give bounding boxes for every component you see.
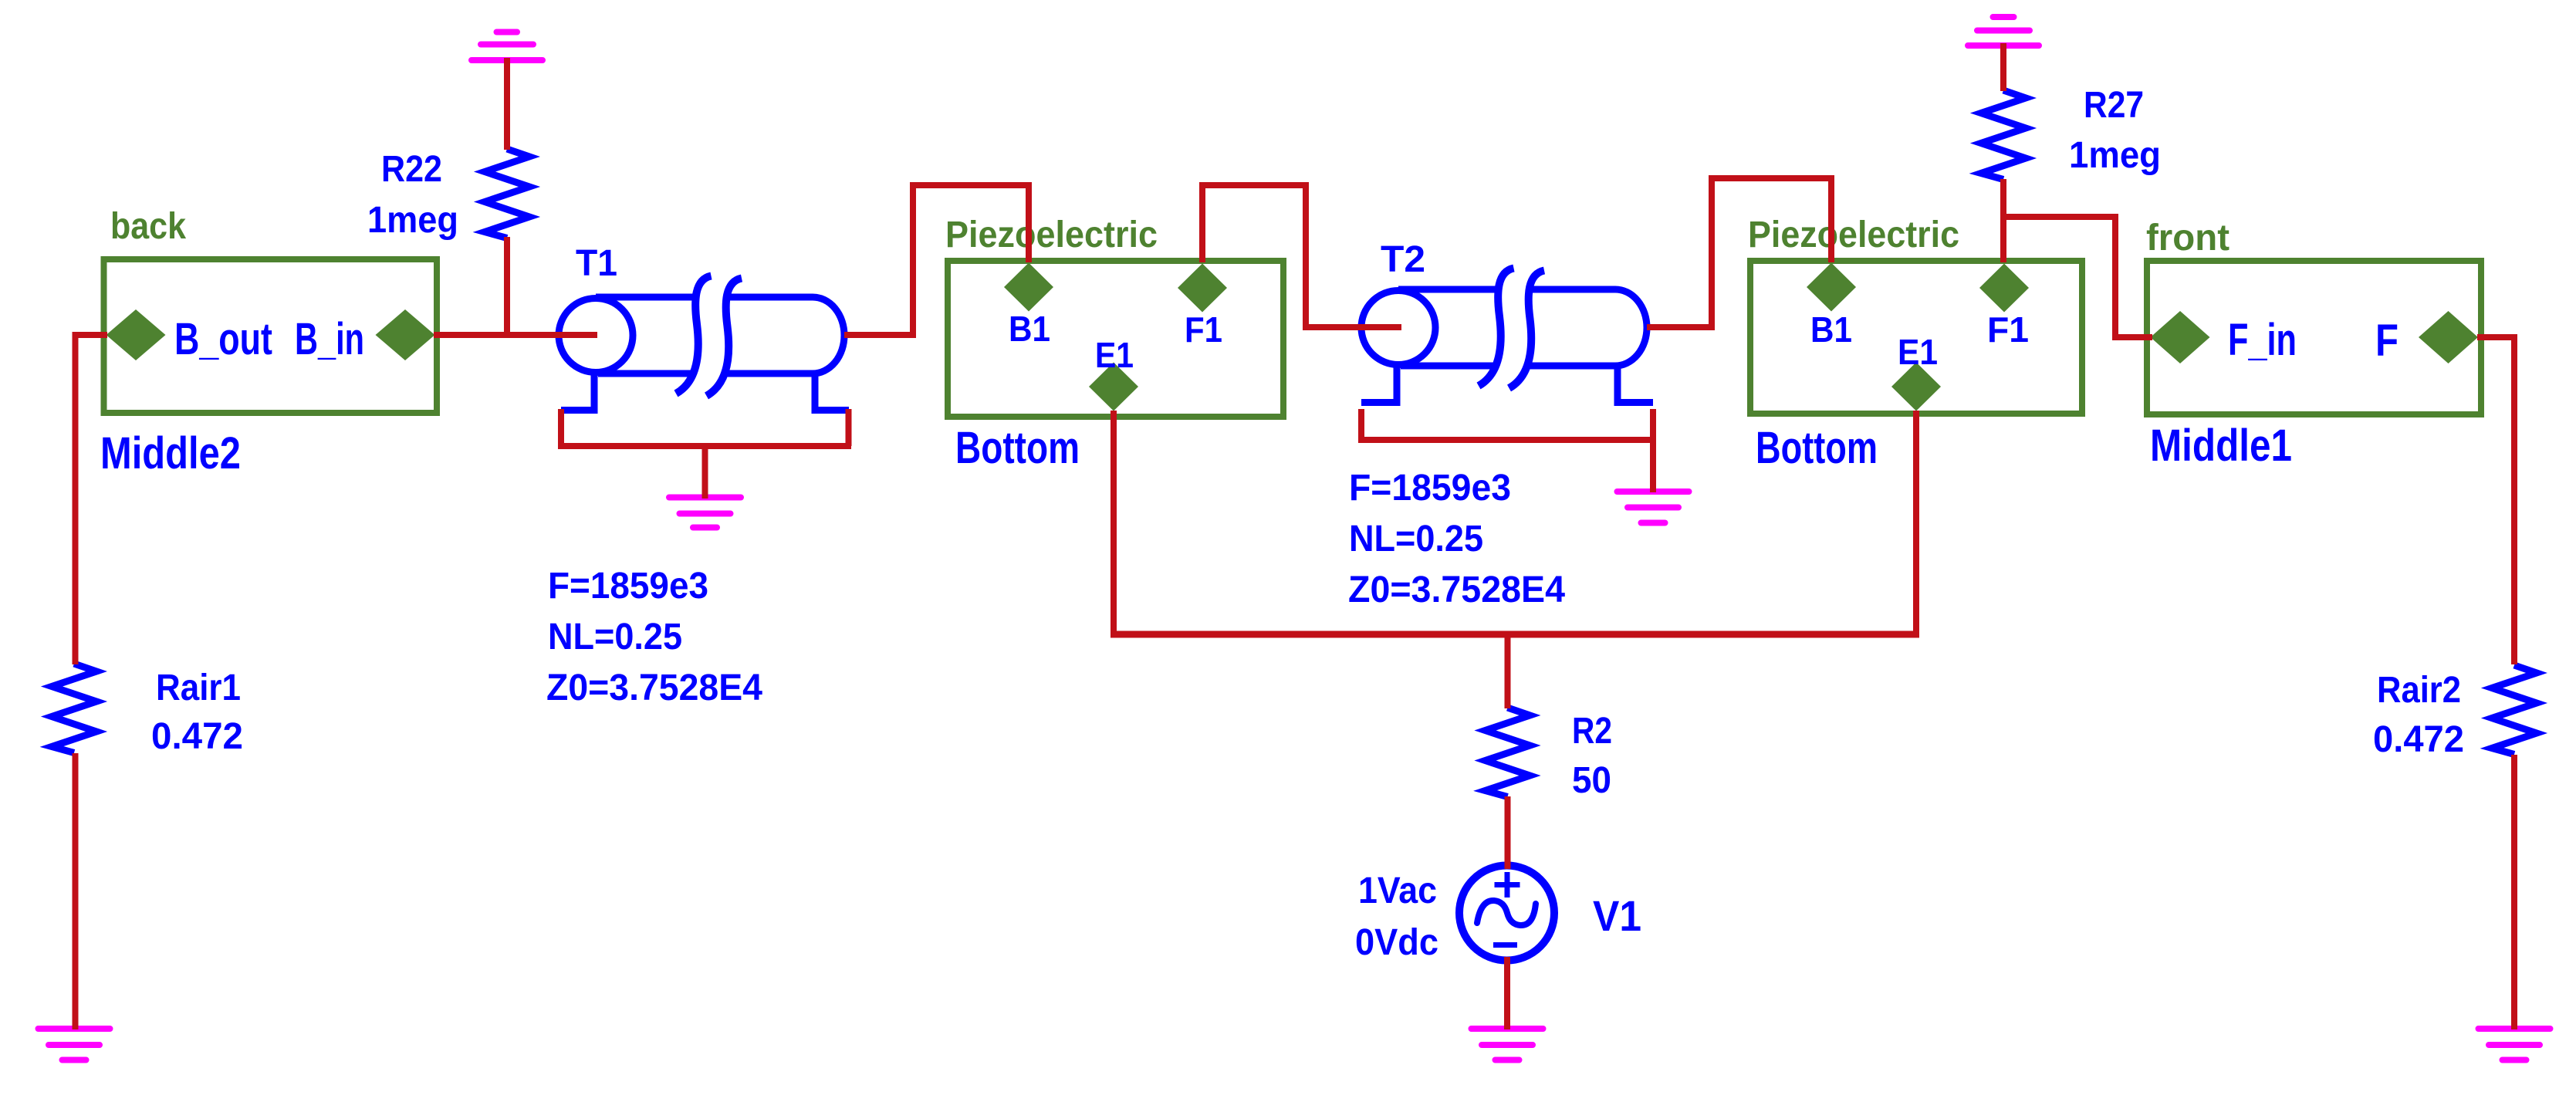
svg-text:Rair1: Rair1 <box>156 668 241 708</box>
svg-text:back: back <box>110 206 186 247</box>
ground under V1 <box>1472 1029 1543 1060</box>
resistor Rair1 zigzag <box>52 664 96 753</box>
svg-text:T2: T2 <box>1381 239 1425 280</box>
port diamond F1 of second Piezoelectric <box>1979 264 2029 313</box>
resistor Rair2 zigzag <box>2492 665 2537 755</box>
wire E1 of first Piezoelectric down to bottom rail <box>1111 411 1117 634</box>
ground above R27 <box>1968 17 2039 46</box>
transmission line T1 symbol <box>559 276 849 411</box>
wire node F1/R27 to port F_in of front block <box>2003 217 2152 337</box>
svg-text:R2: R2 <box>1572 711 1612 752</box>
svg-text:F1: F1 <box>1987 309 2029 350</box>
wire T2 output to port B1 of second Piezoelectric <box>1647 178 1831 327</box>
resistor R22 zigzag <box>485 149 529 238</box>
svg-text:F=1859e3: F=1859e3 <box>1349 468 1511 509</box>
wire V1 minus terminal to ground <box>1504 957 1510 1029</box>
svg-text:Rair2: Rair2 <box>2377 670 2461 711</box>
svg-text:E1: E1 <box>1095 335 1134 375</box>
wire R27 to port F1 of second Piezoelectric <box>2000 179 2006 262</box>
port diamond F_in <box>2151 311 2210 363</box>
ground above R22 <box>472 32 543 61</box>
ground under Rair1 <box>39 1029 110 1060</box>
wire T2 shield legs and bottom rail <box>1358 409 1653 440</box>
wire B_in to T1 center <box>434 332 597 338</box>
svg-text:1meg: 1meg <box>367 200 458 241</box>
ground under T1 <box>669 498 741 528</box>
port diamond E1 of second Piezoelectric <box>1891 363 1941 411</box>
ground under Rair2 <box>2479 1029 2551 1060</box>
resistor R27 zigzag <box>1981 90 2026 180</box>
svg-text:Middle2: Middle2 <box>100 428 241 478</box>
svg-text:NL=0.25: NL=0.25 <box>548 617 682 657</box>
svg-text:F_in: F_in <box>2228 315 2297 365</box>
svg-text:front: front <box>2146 218 2229 259</box>
svg-text:Bottom: Bottom <box>955 423 1080 473</box>
wire T1 shield legs and bottom rail <box>558 409 851 446</box>
svg-text:0Vdc: 0Vdc <box>1355 922 1438 963</box>
port diamond B1 of second Piezoelectric <box>1807 263 1856 312</box>
wire B_out to Rair1 <box>76 335 108 664</box>
svg-text:E1: E1 <box>1898 332 1938 372</box>
svg-text:R27: R27 <box>2084 85 2144 126</box>
svg-text:B1: B1 <box>1810 309 1852 350</box>
port diamond B1 of first Piezoelectric <box>1004 263 1053 312</box>
ground under T2 <box>1618 492 1689 523</box>
svg-text:NL=0.25: NL=0.25 <box>1349 519 1483 559</box>
wire E1 of second Piezoelectric down to bottom rail <box>1913 411 1919 634</box>
svg-text:T1: T1 <box>576 243 617 284</box>
hierarchical block front / Middle1 <box>2147 261 2481 414</box>
port diamond F <box>2419 311 2478 363</box>
resistor R2 zigzag <box>1486 708 1530 797</box>
svg-text:F=1859e3: F=1859e3 <box>548 566 708 607</box>
svg-text:Piezoelectric: Piezoelectric <box>1748 215 1959 255</box>
wire port F to Rair2 <box>2477 337 2514 664</box>
wire bottom rail between E1 ports <box>1111 631 1919 638</box>
svg-text:F: F <box>2375 316 2399 366</box>
wire ground to R22 <box>504 58 510 150</box>
svg-text:Z0=3.7528E4: Z0=3.7528E4 <box>546 668 762 708</box>
svg-text:50: 50 <box>1572 760 1611 801</box>
port diamond E1 of first Piezoelectric <box>1089 363 1138 411</box>
wire port F1 of first Piezoelectric to T2 center <box>1202 185 1401 327</box>
transmission line T2 symbol <box>1361 269 1653 403</box>
wire T1 rail to ground <box>702 446 708 499</box>
svg-text:B1: B1 <box>1009 309 1050 349</box>
svg-text:Z0=3.7528E4: Z0=3.7528E4 <box>1348 570 1565 610</box>
svg-text:Piezoelectric: Piezoelectric <box>945 215 1158 255</box>
svg-text:1Vac: 1Vac <box>1358 870 1437 911</box>
svg-text:1meg: 1meg <box>2069 135 2161 176</box>
svg-text:V1: V1 <box>1593 891 1641 940</box>
wire R22 to node at main wire <box>504 237 510 338</box>
hierarchical block Piezoelectric 1 / Bottom <box>948 261 1283 417</box>
svg-text:Bottom: Bottom <box>1756 423 1878 473</box>
svg-text:B_in: B_in <box>295 314 364 364</box>
wire T2 rail to ground <box>1650 409 1656 492</box>
wire R2 to V1 plus terminal <box>1505 796 1511 869</box>
svg-text:Middle1: Middle1 <box>2150 421 2292 471</box>
hierarchical block back / Middle2 <box>104 259 438 413</box>
svg-text:F1: F1 <box>1185 309 1222 350</box>
voltage source V1 symbol <box>1459 866 1554 961</box>
wire Rair1 to ground <box>73 753 79 1029</box>
port diamond F1 of first Piezoelectric <box>1178 264 1227 313</box>
hierarchical block Piezoelectric 2 / Bottom <box>1750 261 2082 414</box>
svg-text:0.472: 0.472 <box>151 716 243 757</box>
wire ground to R27 <box>2000 43 2006 91</box>
port diamond B_in <box>376 309 435 360</box>
port diamond B_out <box>106 309 166 360</box>
svg-text:R22: R22 <box>381 149 442 190</box>
svg-text:0.472: 0.472 <box>2373 719 2464 760</box>
svg-text:B_out: B_out <box>174 314 272 364</box>
wire T1 output to port B1 of first Piezoelectric <box>844 185 1029 335</box>
wire rail node to R2 <box>1505 634 1511 708</box>
wire Rair2 to ground <box>2511 755 2517 1029</box>
